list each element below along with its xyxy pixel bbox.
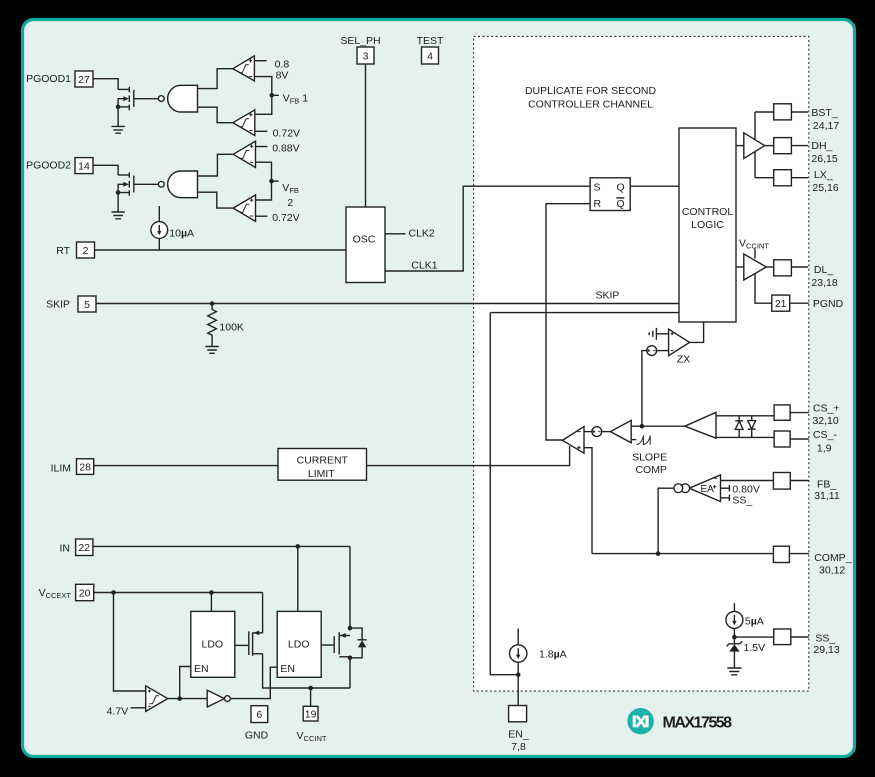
resistor R1 100K — [208, 304, 244, 341]
svg-text:PGOOD1: PGOOD1 — [26, 73, 71, 85]
svg-text:ILIM: ILIM — [51, 463, 71, 475]
node VCCINT (pin19 tap) — [308, 686, 313, 707]
maxim logo — [627, 708, 653, 734]
svg-text:8V: 8V — [276, 69, 289, 81]
transistor Q2 (PGOOD2 pulldown NMOS) — [116, 172, 159, 195]
svg-text:CONTROLLER CHANNEL: CONTROLLER CHANNEL — [528, 99, 653, 111]
part number MAX17558 — [663, 714, 733, 731]
latch U3 (SR flip-flop) — [590, 178, 630, 211]
wire comparator A minus input to node VFB1 — [254, 77, 271, 96]
wire ZX summing node to slope line — [642, 351, 647, 427]
wire EN net vertical — [490, 313, 518, 675]
pin GND (6) — [245, 706, 269, 742]
comparator A (VFB1 vs 0.88V) — [233, 56, 289, 82]
wire pin14 to Q2 drain — [93, 165, 118, 175]
wire UVLO to LDO1 EN — [180, 667, 191, 699]
wire latch R input from PWM comparator — [546, 204, 590, 440]
svg-text:FB_: FB_ — [817, 479, 836, 491]
reference SS_ at EA — [721, 494, 753, 506]
error amplifier EA — [689, 475, 720, 502]
inverter U4 — [207, 690, 230, 707]
wire U2 top input from comparator C — [198, 154, 234, 176]
transistor Q4 (LDO2 pass FET) — [321, 626, 352, 660]
svg-text:28: 28 — [79, 461, 91, 473]
svg-text:CS_+: CS_+ — [813, 402, 840, 414]
pin IN (22) — [60, 539, 93, 556]
buffer DL driver — [744, 254, 774, 280]
svg-text:CURRENT: CURRENT — [297, 454, 349, 466]
svg-text:LIMIT: LIMIT — [308, 468, 335, 480]
oscillator block OSC — [346, 207, 385, 283]
control logic block — [679, 128, 736, 322]
svg-text:OSC: OSC — [353, 234, 376, 246]
pin pad SS_ (29,13) — [774, 629, 840, 656]
regulator block LDO2 — [277, 611, 321, 677]
svg-text:10µA: 10µA — [169, 227, 194, 239]
svg-text:SKIP: SKIP — [596, 290, 620, 302]
node SS — [732, 635, 774, 640]
current limit block — [278, 449, 367, 481]
svg-text:31,11: 31,11 — [814, 490, 840, 502]
svg-text:4.7V: 4.7V — [107, 705, 129, 717]
svg-text:RT: RT — [56, 245, 70, 257]
current source I1 10uA — [151, 206, 194, 250]
svg-text:LDO: LDO — [202, 639, 224, 651]
pin PGOOD2 (14) — [26, 158, 93, 174]
diode D2 (CS clamp down) — [748, 416, 756, 438]
wire SKIP to control logic — [96, 290, 679, 304]
pin SEL_PH (3) — [340, 35, 380, 64]
wire EA minus input to FB pad — [721, 480, 774, 482]
node SKIP/R3 junction — [210, 301, 215, 306]
svg-text:20: 20 — [79, 587, 91, 599]
pin pad CS_+ (32,10) — [774, 402, 839, 427]
svg-text:3: 3 — [363, 50, 369, 62]
wire CLK2 output — [385, 227, 435, 239]
wire EN net into control logic — [490, 312, 679, 314]
pin pad PGND (21) — [772, 295, 844, 311]
svg-text:IN: IN — [60, 542, 71, 554]
svg-text:SS_: SS_ — [815, 632, 835, 644]
svg-text:EA: EA — [701, 484, 715, 495]
sawtooth symbol (slope ramp) — [631, 435, 667, 476]
svg-text:100K: 100K — [219, 321, 244, 333]
ground (Q2 source) — [112, 193, 125, 219]
svg-text:29,13: 29,13 — [813, 644, 839, 656]
wire PWM plus input down to COMP net — [584, 448, 592, 554]
svg-text:1.5V: 1.5V — [744, 642, 766, 654]
wire EN node to EN pad — [517, 675, 519, 706]
wire inverter to LDO2 EN — [230, 667, 277, 698]
pin pad FB_ (31,11) — [773, 473, 839, 503]
svg-text:5µA: 5µA — [745, 615, 764, 627]
svg-text:GND: GND — [245, 730, 269, 742]
wire Q3 source to VCCINT rail — [263, 654, 350, 688]
node VFB1 — [270, 93, 309, 106]
wire IN rail — [93, 544, 350, 549]
wire U1 top input from comparator A — [198, 69, 233, 89]
svg-text:1.8µA: 1.8µA — [539, 648, 567, 660]
wire IN to Q4 drain — [349, 546, 351, 628]
pin pad DL_ (23,18) — [774, 260, 838, 289]
transistor Q1 (PGOOD1 pulldown NMOS) — [116, 87, 159, 110]
comparator PWM — [562, 427, 584, 454]
pin VCCEXT (20) — [39, 584, 94, 600]
wire node VFB2 to comparator D plus input — [256, 181, 272, 200]
wire PGND rail of DL driver — [755, 273, 772, 303]
svg-text:EN_: EN_ — [508, 728, 529, 740]
svg-text:Q: Q — [617, 198, 625, 210]
wire U2 bottom input from comparator D — [198, 192, 234, 208]
ground (zener) — [727, 668, 741, 675]
svg-text:SS_: SS_ — [732, 494, 752, 506]
regulator block LDO1 — [191, 611, 235, 677]
wire node VFB1 to comparator B plus input — [255, 95, 272, 114]
current source I3 1.8uA — [510, 629, 567, 675]
svg-text:4: 4 — [427, 50, 433, 62]
wire pin27 to Q1 drain — [93, 79, 118, 90]
summing node (slope comp adder) — [584, 427, 610, 437]
svg-text:S: S — [594, 181, 601, 193]
pin pad DH_ (26,15) — [774, 138, 838, 166]
svg-text:0.72V: 0.72V — [272, 212, 299, 224]
node VFB2 — [269, 179, 299, 209]
svg-text:ZX: ZX — [677, 354, 690, 366]
buffer DH driver — [744, 133, 774, 159]
wire comparator C minus input to node VFB2 — [256, 162, 272, 181]
wire slope comp input from CS amp — [631, 424, 685, 429]
node EN — [516, 672, 521, 677]
svg-text:DL_: DL_ — [814, 264, 833, 276]
svg-text:21: 21 — [775, 298, 787, 310]
pin pad LX_ (25,16) — [774, 169, 839, 194]
svg-text:7,8: 7,8 — [511, 741, 526, 753]
pin pad COMP_ (30,12) — [773, 546, 851, 576]
wire EA output to COMP net — [658, 488, 674, 553]
ground (R1) — [205, 340, 218, 353]
wire ZX output to control logic — [690, 322, 704, 342]
svg-text:PGOOD2: PGOOD2 — [26, 160, 71, 172]
wire RT to OSC — [95, 249, 347, 251]
pin pad EN_ (7,8) — [508, 706, 529, 754]
svg-text:R: R — [594, 198, 602, 210]
wire VCCEXT to UVLO comparator — [114, 593, 146, 692]
wire latch Q to control logic — [630, 185, 679, 187]
wire BST/LX rail of DH driver — [755, 112, 774, 178]
wire U1 bottom input from comparator B — [198, 107, 233, 123]
wire Q4 source down — [349, 658, 351, 688]
amplifier CS (current sense) — [685, 412, 774, 438]
svg-text:5: 5 — [84, 299, 90, 311]
svg-text:EN: EN — [194, 663, 209, 675]
svg-text:BST_: BST_ — [811, 107, 837, 119]
diode D1 (CS clamp up) — [735, 416, 743, 438]
svg-text:SEL_PH: SEL_PH — [340, 35, 380, 47]
svg-text:0.72V: 0.72V — [273, 128, 300, 140]
svg-text:CLK1: CLK1 — [411, 259, 437, 271]
svg-text:COMP_: COMP_ — [814, 552, 852, 564]
nand gate U1 (PGOOD1) — [158, 85, 197, 112]
ground (Q1 source) — [112, 107, 125, 133]
svg-text:SKIP: SKIP — [46, 299, 70, 311]
svg-text:25,16: 25,16 — [812, 182, 838, 194]
wire VCCEXT to Q3 drain — [262, 593, 264, 633]
comparator C (VFB2 vs 0.88V) — [233, 141, 299, 167]
pin VCCINT (19) — [297, 706, 327, 743]
svg-text:CLK2: CLK2 — [409, 227, 435, 239]
svg-text:2: 2 — [83, 245, 89, 257]
comparator ZX (zero crossing) — [669, 329, 691, 365]
svg-text:LOGIC: LOGIC — [691, 219, 724, 231]
svg-text:19: 19 — [305, 708, 317, 720]
wire control logic to DH driver — [736, 145, 744, 147]
wire SEL_PH to OSC — [365, 64, 367, 207]
svg-text:LDO: LDO — [288, 639, 310, 651]
wire CLK1 output to latch S input — [385, 186, 590, 271]
wire control logic to DL driver — [736, 266, 744, 268]
svg-text:COMP: COMP — [635, 464, 667, 476]
pin TEST (4) — [417, 35, 444, 64]
net VCCINT label at DL driver — [739, 238, 769, 259]
svg-text:MAX17558: MAX17558 — [663, 714, 733, 731]
duplicate channel dashed boundary — [474, 36, 809, 691]
pin ILIM (28) — [51, 459, 94, 475]
pin PGOOD1 (27) — [26, 71, 93, 87]
svg-text:DH_: DH_ — [811, 140, 832, 152]
pin pad CS_- (1,9) — [774, 429, 837, 454]
pin SKIP (5) — [46, 296, 96, 312]
EA output clamp symbol — [674, 484, 690, 493]
comparator UVLO 4.7V — [107, 686, 168, 718]
svg-text:LX_: LX_ — [814, 169, 833, 181]
wire VCCEXT rail — [94, 590, 263, 595]
buffer slope comp — [610, 420, 631, 442]
svg-text:23,18: 23,18 — [811, 277, 837, 289]
svg-text:32,10: 32,10 — [812, 415, 838, 427]
svg-text:30,12: 30,12 — [819, 564, 845, 576]
svg-text:PGND: PGND — [813, 298, 844, 310]
comparator B (VFB1 vs 0.72V) — [233, 110, 300, 140]
svg-text:2: 2 — [287, 197, 293, 209]
svg-text:DUPLICATE FOR SECOND: DUPLICATE FOR SECOND — [525, 85, 656, 97]
svg-text:SLOPE: SLOPE — [632, 452, 667, 464]
offset source at ZX plus input — [649, 328, 668, 340]
wire IN to LDO2 top — [297, 546, 299, 611]
svg-text:CS_-: CS_- — [813, 429, 837, 441]
comparator D (VFB2 vs 0.72V) — [233, 195, 299, 224]
pin RT (2) — [56, 242, 94, 258]
svg-text:26,15: 26,15 — [811, 153, 837, 165]
reference 0.80V at EA — [721, 483, 760, 495]
svg-text:CONTROL: CONTROL — [682, 206, 733, 218]
svg-text:27: 27 — [78, 74, 90, 86]
svg-text:24,17: 24,17 — [813, 120, 839, 132]
svg-text:6: 6 — [256, 709, 262, 721]
svg-text:22: 22 — [78, 542, 90, 554]
wire UVLO output — [168, 696, 208, 701]
diode D3 (Q4 body diode) — [350, 628, 367, 658]
current source I2 5uA — [726, 603, 764, 637]
svg-text:EN: EN — [280, 663, 295, 675]
svg-text:0.88V: 0.88V — [272, 143, 299, 155]
zener diode Z1 1.5V — [727, 637, 765, 668]
wire current limit to PWM comparator — [367, 446, 570, 466]
wire ILIM to current limit block — [94, 465, 278, 467]
svg-text:Q: Q — [617, 181, 625, 193]
pin pad BST_ (24,17) — [774, 104, 840, 132]
svg-text:14: 14 — [78, 160, 90, 172]
svg-text:TEST: TEST — [417, 35, 444, 47]
summing node at ZX minus input — [647, 346, 669, 356]
transistor Q3 (LDO1 pass FET) — [235, 631, 263, 656]
svg-text:1,9: 1,9 — [817, 442, 832, 454]
wire COMP net — [592, 551, 773, 556]
nand gate U2 (PGOOD2) — [158, 171, 197, 198]
wire VCCEXT to LDO1 top — [210, 593, 212, 612]
